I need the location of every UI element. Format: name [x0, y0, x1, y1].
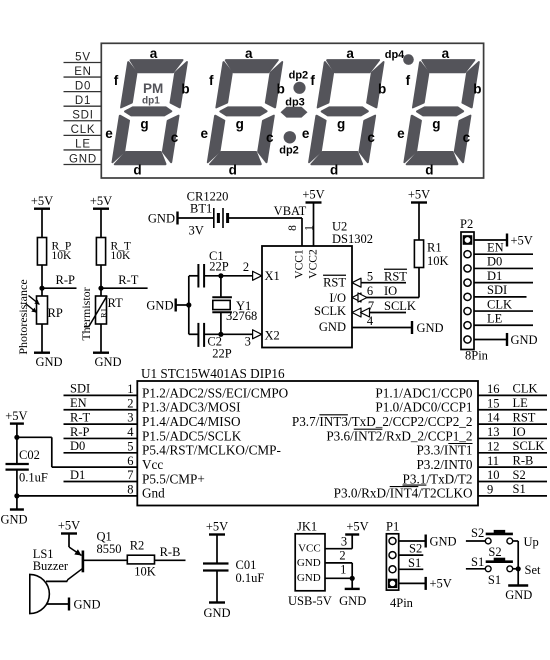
svg-text:10K: 10K: [427, 254, 449, 268]
svg-text:R2: R2: [130, 538, 145, 552]
svg-text:D0: D0: [487, 255, 502, 269]
svg-text:+5V: +5V: [511, 233, 533, 247]
svg-text:14: 14: [487, 411, 500, 425]
svg-text:SDI: SDI: [72, 110, 94, 122]
svg-text:e: e: [201, 126, 209, 141]
svg-text:X1: X1: [265, 269, 280, 283]
svg-text:P3.0/RxD/INT4/T2CLKO: P3.0/RxD/INT4/T2CLKO: [334, 486, 473, 501]
svg-text:+5V: +5V: [5, 409, 27, 423]
svg-text:GND: GND: [430, 534, 457, 548]
svg-text:P1.4/ADC4/MISO: P1.4/ADC4/MISO: [142, 414, 241, 429]
svg-text:e: e: [397, 126, 405, 141]
svg-text:2: 2: [243, 260, 249, 274]
svg-text:22P: 22P: [212, 347, 232, 361]
svg-text:GND: GND: [74, 597, 101, 611]
svg-text:g: g: [337, 116, 345, 131]
svg-text:GND: GND: [339, 594, 366, 608]
svg-text:EN: EN: [70, 396, 87, 410]
svg-text:LE: LE: [513, 396, 529, 410]
svg-text:SCLK: SCLK: [314, 304, 346, 318]
svg-text:S2: S2: [409, 542, 422, 556]
svg-text:GND: GND: [146, 298, 173, 312]
svg-text:4: 4: [367, 314, 374, 328]
svg-text:16: 16: [487, 382, 500, 396]
svg-text:P1.2/ADC2/SS/ECI/CMPO: P1.2/ADC2/SS/ECI/CMPO: [142, 385, 288, 400]
svg-text:JK1: JK1: [297, 520, 317, 534]
svg-text:D1: D1: [70, 468, 85, 482]
svg-text:I/O: I/O: [329, 291, 346, 305]
svg-text:D1: D1: [487, 269, 502, 283]
svg-text:C02: C02: [19, 448, 40, 462]
svg-text:10: 10: [487, 468, 500, 482]
svg-text:D0: D0: [70, 439, 85, 453]
svg-text:dp4: dp4: [385, 49, 405, 61]
svg-text:PM: PM: [143, 81, 163, 96]
svg-text:GND: GND: [297, 557, 321, 569]
svg-text:SDI: SDI: [487, 283, 507, 297]
svg-text:+5V: +5V: [430, 577, 452, 591]
svg-text:RST: RST: [513, 410, 536, 424]
svg-text:5V: 5V: [75, 51, 91, 63]
svg-text:dp2: dp2: [289, 69, 309, 81]
svg-text:P5.4/RST/MCLKO/CMP-: P5.4/RST/MCLKO/CMP-: [142, 443, 281, 458]
svg-text:+5V: +5V: [90, 194, 112, 208]
svg-text:13: 13: [487, 425, 500, 439]
svg-text:RST: RST: [384, 270, 407, 284]
svg-text:3V: 3V: [189, 223, 204, 237]
svg-text:RT: RT: [108, 296, 124, 310]
svg-text:R-B: R-B: [160, 545, 181, 559]
svg-text:e: e: [302, 126, 310, 141]
svg-text:RP: RP: [48, 306, 63, 320]
svg-text:S2: S2: [513, 468, 526, 482]
svg-text:8Pin: 8Pin: [465, 348, 489, 362]
svg-text:P1.3/ADC3/MOSI: P1.3/ADC3/MOSI: [142, 400, 241, 415]
svg-text:GND: GND: [35, 355, 62, 369]
svg-text:dp3: dp3: [285, 96, 305, 108]
svg-text:1: 1: [303, 225, 315, 231]
svg-text:8: 8: [127, 482, 133, 496]
svg-text:d: d: [330, 163, 338, 178]
svg-text:10K: 10K: [111, 250, 132, 262]
svg-text:R-T: R-T: [70, 410, 91, 424]
svg-text:g: g: [432, 116, 440, 131]
svg-text:+5V: +5V: [346, 520, 368, 534]
svg-text:S1: S1: [488, 573, 501, 587]
svg-text:2: 2: [339, 549, 345, 563]
svg-text:b: b: [473, 82, 481, 97]
svg-text:VCC2: VCC2: [307, 249, 319, 279]
svg-text:GND: GND: [69, 153, 97, 165]
svg-text:IO: IO: [513, 425, 526, 439]
svg-text:a: a: [442, 46, 450, 61]
svg-text:RST: RST: [323, 276, 346, 290]
svg-text:d: d: [425, 163, 433, 178]
svg-text:CLK: CLK: [513, 382, 538, 396]
svg-text:GND: GND: [417, 321, 444, 335]
svg-text:1: 1: [127, 382, 133, 396]
svg-text:VBAT: VBAT: [274, 204, 307, 218]
svg-text:0.1uF: 0.1uF: [236, 571, 265, 585]
svg-text:P3.2/INT0: P3.2/INT0: [416, 457, 472, 472]
svg-text:e: e: [105, 126, 113, 141]
svg-text:P2: P2: [460, 217, 473, 231]
svg-text:P3.7/INT3/TxD_2/CCP2/CCP2_2: P3.7/INT3/TxD_2/CCP2/CCP2_2: [292, 414, 473, 429]
svg-text:P1.5/ADC5/SCLK: P1.5/ADC5/SCLK: [142, 428, 242, 443]
svg-text:b: b: [181, 82, 189, 97]
svg-text:S2: S2: [471, 526, 484, 540]
svg-text:1: 1: [340, 562, 346, 576]
svg-text:5: 5: [127, 439, 133, 453]
svg-text:EN: EN: [74, 66, 92, 78]
svg-text:SCLK: SCLK: [513, 439, 545, 453]
svg-text:Buzzer: Buzzer: [33, 559, 69, 573]
svg-text:+5V: +5V: [206, 520, 228, 534]
svg-text:GND: GND: [505, 588, 532, 602]
svg-text:P1: P1: [386, 520, 399, 534]
svg-text:c: c: [266, 130, 274, 145]
svg-text:R-P: R-P: [70, 425, 90, 439]
svg-text:SCLK: SCLK: [384, 299, 416, 313]
svg-text:32768: 32768: [226, 309, 257, 323]
svg-text:Up: Up: [524, 535, 539, 549]
svg-text:R1: R1: [427, 240, 442, 254]
svg-text:c: c: [171, 130, 179, 145]
svg-text:R-T: R-T: [118, 273, 139, 287]
svg-text:DS1302: DS1302: [332, 232, 373, 246]
svg-text:8550: 8550: [97, 542, 122, 556]
svg-text:3: 3: [245, 335, 251, 349]
svg-text:Gnd: Gnd: [142, 486, 165, 501]
svg-text:D0: D0: [75, 80, 91, 92]
svg-text:R-P: R-P: [56, 273, 76, 287]
svg-text:S2: S2: [488, 545, 501, 559]
svg-text:4Pin: 4Pin: [390, 596, 414, 610]
svg-text:a: a: [346, 46, 354, 61]
svg-text:f: f: [310, 73, 315, 88]
svg-text:c: c: [367, 130, 375, 145]
svg-text:GND: GND: [297, 572, 321, 584]
svg-text:dp2: dp2: [279, 144, 299, 156]
svg-text:P3.3/INT1: P3.3/INT1: [416, 443, 472, 458]
svg-text:6: 6: [127, 454, 133, 468]
svg-text:9: 9: [487, 482, 493, 496]
svg-text:X2: X2: [265, 329, 280, 343]
svg-text:0.1uF: 0.1uF: [19, 471, 48, 485]
svg-text:P3.1/TxD/T2: P3.1/TxD/T2: [403, 471, 473, 486]
svg-text:3: 3: [341, 535, 347, 549]
svg-text:10K: 10K: [134, 565, 156, 579]
svg-text:P1.0/ADC0/CCP1: P1.0/ADC0/CCP1: [375, 400, 472, 415]
svg-text:USB-5V: USB-5V: [288, 594, 332, 608]
svg-text:SDI: SDI: [70, 382, 90, 396]
svg-text:S1: S1: [513, 482, 526, 496]
svg-text:LE: LE: [75, 139, 91, 151]
svg-text:8: 8: [287, 225, 299, 231]
svg-text:GND: GND: [94, 355, 121, 369]
svg-text:b: b: [378, 82, 386, 97]
svg-text:R-B: R-B: [513, 453, 534, 467]
svg-text:IO: IO: [384, 284, 397, 298]
svg-text:d: d: [229, 163, 237, 178]
svg-text:g: g: [236, 116, 244, 131]
svg-text:a: a: [245, 46, 253, 61]
svg-text:Thermistor: Thermistor: [79, 287, 93, 340]
svg-text:VCC: VCC: [298, 542, 321, 554]
svg-text:GND: GND: [148, 211, 175, 225]
svg-text:11: 11: [487, 454, 499, 468]
svg-text:7: 7: [127, 468, 133, 482]
svg-text:CLK: CLK: [71, 124, 96, 136]
svg-text:22P: 22P: [209, 260, 229, 274]
svg-text:Vcc: Vcc: [142, 457, 163, 472]
svg-text:Photoresistance: Photoresistance: [16, 279, 30, 354]
svg-text:GND: GND: [319, 320, 346, 334]
svg-text:S1: S1: [408, 556, 421, 570]
svg-text:d: d: [133, 163, 141, 178]
svg-text:+5V: +5V: [58, 519, 80, 533]
svg-text:+5V: +5V: [31, 194, 53, 208]
svg-text:S1: S1: [471, 555, 484, 569]
svg-text:D1: D1: [75, 95, 91, 107]
svg-text:LE: LE: [487, 312, 503, 326]
svg-text:f: f: [114, 73, 119, 88]
svg-text:VCC1: VCC1: [293, 249, 305, 279]
svg-text:12: 12: [487, 439, 500, 453]
svg-text:BT1: BT1: [190, 201, 212, 215]
svg-text:CLK: CLK: [487, 297, 512, 311]
svg-text:+5V: +5V: [302, 188, 324, 202]
svg-text:R1: R1: [98, 308, 108, 318]
svg-text:15: 15: [487, 396, 500, 410]
svg-text:3: 3: [127, 411, 133, 425]
svg-text:2: 2: [127, 396, 133, 410]
svg-text:dp1: dp1: [142, 95, 160, 106]
svg-text:GND: GND: [0, 512, 27, 526]
svg-text:f: f: [406, 73, 411, 88]
svg-text:7: 7: [368, 299, 374, 313]
svg-text:g: g: [140, 116, 148, 131]
svg-text:a: a: [150, 46, 158, 61]
svg-text:U1 STC15W401AS DIP16: U1 STC15W401AS DIP16: [141, 366, 285, 381]
svg-text:C01: C01: [236, 558, 257, 572]
svg-text:Set: Set: [525, 563, 542, 577]
svg-text:6: 6: [367, 284, 373, 298]
svg-text:f: f: [209, 73, 214, 88]
svg-text:P1.1/ADC1/CCP0: P1.1/ADC1/CCP0: [375, 385, 473, 400]
svg-text:b: b: [277, 82, 285, 97]
svg-text:10K: 10K: [52, 250, 73, 262]
svg-text:5: 5: [367, 270, 373, 284]
svg-text:P3.6/INT2/RxD_2/CCP1_2: P3.6/INT2/RxD_2/CCP1_2: [326, 428, 472, 443]
svg-text:EN: EN: [487, 241, 504, 255]
svg-text:P5.5/CMP+: P5.5/CMP+: [142, 471, 205, 486]
svg-text:c: c: [463, 130, 471, 145]
svg-text:4: 4: [127, 425, 134, 439]
svg-text:GND: GND: [203, 606, 230, 620]
svg-text:+5V: +5V: [408, 188, 430, 202]
svg-text:GND: GND: [511, 333, 538, 347]
